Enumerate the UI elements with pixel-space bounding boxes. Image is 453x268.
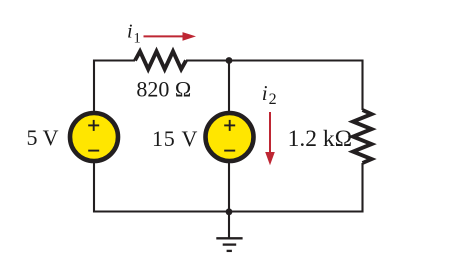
svg-text:1: 1 bbox=[134, 31, 141, 47]
svg-text:1.2 kΩ: 1.2 kΩ bbox=[288, 126, 352, 152]
svg-text:i: i bbox=[127, 21, 133, 43]
svg-text:2: 2 bbox=[269, 91, 277, 108]
svg-text:i: i bbox=[262, 81, 268, 105]
svg-text:820 Ω: 820 Ω bbox=[136, 77, 191, 102]
svg-text:5 V: 5 V bbox=[27, 125, 59, 150]
svg-text:15 V: 15 V bbox=[152, 126, 198, 151]
